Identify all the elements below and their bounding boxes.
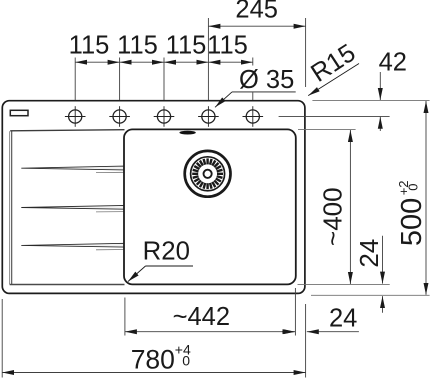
R20 leader arrow <box>128 266 146 282</box>
diameter 35 leader <box>232 91 296 93</box>
780 dimension line <box>2 372 305 374</box>
svg-text:42: 42 <box>379 49 407 77</box>
svg-text:115: 115 <box>166 31 207 59</box>
svg-text:115: 115 <box>117 31 158 59</box>
24 vertical upper arrow <box>382 236 384 284</box>
drainboard top inner line <box>10 130 124 131</box>
svg-text:~442: ~442 <box>173 303 230 331</box>
500 dimension line <box>425 101 427 295</box>
logo plate <box>10 110 28 115</box>
svg-text:115: 115 <box>69 31 110 59</box>
svg-text:0: 0 <box>406 184 421 191</box>
top edge extension line <box>312 99 429 101</box>
115 dimension lines <box>75 61 253 63</box>
42 upper arrow <box>379 72 381 100</box>
svg-text:500: 500 <box>396 198 428 246</box>
bowl bottom extension line <box>298 283 390 285</box>
drain groove 3 <box>21 243 124 247</box>
hole centerline extension <box>279 115 390 117</box>
bowl outline <box>124 129 296 284</box>
780 extension line left <box>1 299 3 378</box>
svg-text:0: 0 <box>182 352 190 368</box>
drainboard bottom inner line <box>10 284 125 286</box>
svg-text:Ø 35: Ø 35 <box>239 66 294 94</box>
drain groove 1 <box>21 166 124 170</box>
~400 dimension line <box>349 130 351 284</box>
faucet hole 1 <box>65 106 86 127</box>
svg-text:24: 24 <box>329 305 357 333</box>
115 extension lines <box>75 18 253 100</box>
drain groove 1 shadow <box>96 171 124 173</box>
svg-text:~400: ~400 <box>318 187 348 246</box>
svg-text:780: 780 <box>131 345 175 375</box>
24 vertical lower arrow <box>382 296 384 313</box>
~442 dimension line <box>125 331 296 333</box>
780 extension line right <box>305 304 307 378</box>
drain groove 2 <box>21 205 124 209</box>
drain groove 3 shadow <box>96 249 124 251</box>
svg-text:R20: R20 <box>143 237 190 265</box>
24 horizontal right arrow and line <box>307 331 359 333</box>
drain strainer <box>185 151 231 197</box>
faucet hole 4 <box>198 106 219 127</box>
sink outer outline <box>2 101 305 294</box>
245 dimension line <box>208 25 305 27</box>
~442 extension line right <box>294 288 296 336</box>
faucet hole 5 <box>243 106 264 127</box>
diameter 35 leader arrow <box>215 92 232 107</box>
R20 leader underline <box>146 265 194 267</box>
R15 leader <box>308 64 359 96</box>
42 lower arrow <box>379 117 381 131</box>
~442 extension line left <box>124 298 126 336</box>
drainboard left inner double line <box>9 131 11 284</box>
svg-text:24: 24 <box>354 239 384 268</box>
24 horizontal left arrow <box>282 331 294 333</box>
svg-text:245: 245 <box>235 0 278 24</box>
faucet hole 3 <box>154 106 175 127</box>
sink bottom extension line <box>311 294 430 296</box>
bowl top extension line <box>298 129 356 131</box>
245 extension line right <box>305 18 307 87</box>
faucet hole 2 <box>109 106 130 127</box>
drain groove 2 shadow <box>96 211 124 213</box>
svg-text:115: 115 <box>207 31 248 59</box>
overflow slot <box>179 131 195 135</box>
